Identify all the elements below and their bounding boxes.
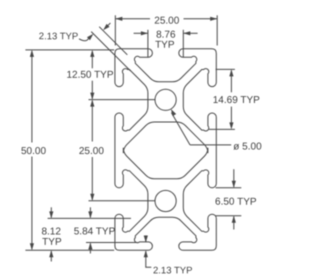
access hole bottom, 5.00 dia — [155, 190, 176, 211]
dimension 25.00 overall width — [114, 15, 116, 45]
svg-text:14.69 TYP: 14.69 TYP — [213, 95, 260, 106]
svg-text:2.13 TYP: 2.13 TYP — [153, 265, 192, 276]
dimension 2.13 TYP corner wall thickness, top-left leader — [99, 27, 127, 55]
svg-text:8.12: 8.12 — [41, 226, 61, 237]
center cavity void between cells — [123, 122, 208, 179]
dimension 14.69 TYP side slot span — [216, 68, 235, 70]
dimension 50.00 overall height — [25, 49, 114, 51]
dimension 8.12 TYP slot depth — [50, 207, 52, 217]
dimension 2.13 TYP bottom lip thickness — [145, 235, 147, 241]
dimension 5.84 TYP slot floor to lip — [48, 217, 131, 219]
svg-text:12.50 TYP: 12.50 TYP — [66, 70, 113, 81]
svg-text:25.00: 25.00 — [79, 146, 104, 157]
svg-text:6.50 TYP: 6.50 TYP — [215, 197, 257, 208]
dimension 25.00 hole center spacing — [91, 101, 93, 142]
extension line upper hole center — [89, 99, 156, 101]
leader diameter 5.00 hole callout — [190, 144, 231, 146]
profile outline of 25x50 T-slot aluminum extrusion cross-section — [115, 49, 216, 251]
svg-text:25.00: 25.00 — [154, 16, 179, 27]
svg-text:TYP: TYP — [42, 237, 62, 248]
svg-text:50.00: 50.00 — [21, 146, 46, 157]
dimension 12.50 TYP top edge to hole center — [91, 51, 93, 68]
dimension 8.76 TYP top slot mouth — [147, 30, 149, 57]
svg-text:5.84 TYP: 5.84 TYP — [74, 226, 116, 237]
dimension 6.50 TYP slot opening — [216, 187, 242, 189]
svg-text:ø 5.00: ø 5.00 — [233, 142, 262, 153]
svg-text:TYP: TYP — [155, 40, 175, 51]
extension line lower hole center — [89, 200, 156, 202]
access hole top, 5.00 dia — [155, 89, 176, 110]
svg-text:2.13 TYP: 2.13 TYP — [39, 31, 78, 42]
